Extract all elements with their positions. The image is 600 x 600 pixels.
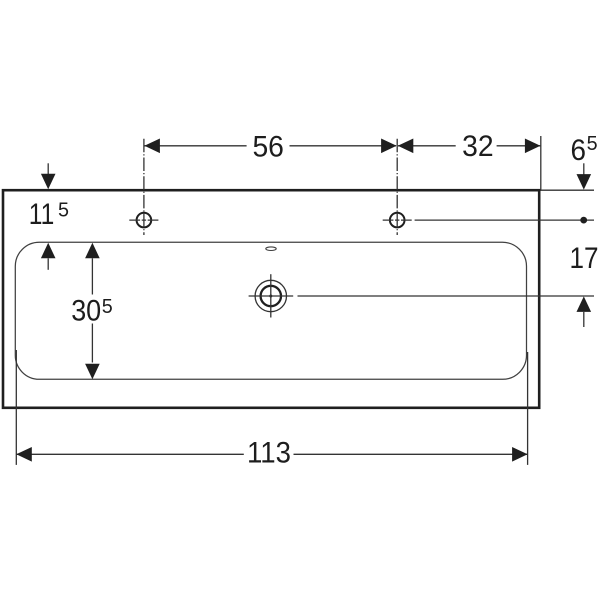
- tap hole left horizontal centerline: [129, 219, 158, 221]
- drain horizontal centerline: [249, 295, 294, 297]
- dimension 113 label: [247, 436, 291, 469]
- dimension 17 up arrow: [577, 296, 592, 327]
- dimension 6-5 down arrow: [577, 163, 592, 189]
- overflow slot: [266, 247, 276, 251]
- svg-text:11: 11: [29, 198, 55, 231]
- basin inner bowl outline: [15, 242, 526, 379]
- dimension point dot: [580, 217, 587, 224]
- drain vertical centerline: [270, 274, 272, 317]
- dimension 56 line: [144, 145, 396, 147]
- dimension 30-5 down arrow: [85, 364, 100, 380]
- svg-text:5: 5: [587, 133, 598, 155]
- dimension 113 left arrow: [16, 447, 32, 462]
- tap hole left: [137, 213, 152, 228]
- svg-text:5: 5: [102, 296, 113, 318]
- dimension 113 line: [16, 453, 527, 455]
- dimension 56 left arrow: [144, 139, 160, 154]
- tap hole left vertical centerline: [143, 139, 145, 235]
- drain inner circle: [261, 286, 281, 306]
- dimension 113 right extension line: [527, 352, 529, 465]
- svg-text:113: 113: [247, 436, 291, 469]
- dimension 113 right arrow: [512, 447, 528, 462]
- dimension 32 right arrow: [525, 139, 541, 154]
- dimension 32 left arrow: [398, 139, 414, 154]
- tap hole right: [390, 213, 405, 228]
- dimension 6-5 label: [571, 133, 598, 167]
- svg-text:6: 6: [571, 134, 587, 167]
- dimension 56 right arrow: [381, 139, 397, 154]
- dimension 17 label: [570, 242, 599, 275]
- dimension 30-5 line: [91, 258, 93, 362]
- tap hole axis extension line right: [415, 219, 594, 221]
- dimension 30-5 up arrow: [85, 243, 100, 258]
- dimension 11-5 up arrow: [41, 243, 56, 270]
- svg-text:32: 32: [462, 130, 494, 163]
- dimension 113 left extension line: [15, 350, 17, 465]
- dimension 56 label: [252, 130, 284, 163]
- svg-text:5: 5: [58, 200, 69, 222]
- drain axis extension line right: [298, 295, 595, 297]
- dimension 32 right extension line: [540, 136, 542, 191]
- dimension 11-5 down arrow: [41, 163, 56, 189]
- dimension 11-5 label: [29, 198, 69, 231]
- tap hole right vertical centerline: [396, 139, 398, 235]
- svg-text:56: 56: [252, 130, 284, 163]
- dimension 30-5 label: [71, 294, 113, 327]
- top edge extension line right: [542, 189, 595, 191]
- drain center dot: [269, 295, 272, 298]
- dimension 32 line: [398, 145, 540, 147]
- svg-text:17: 17: [570, 242, 599, 275]
- dimension 32 label: [462, 130, 494, 163]
- washbasin outer outline: [3, 190, 539, 408]
- drain outer circle: [255, 280, 286, 311]
- svg-text:30: 30: [71, 294, 101, 327]
- tap hole right horizontal centerline: [383, 219, 412, 221]
